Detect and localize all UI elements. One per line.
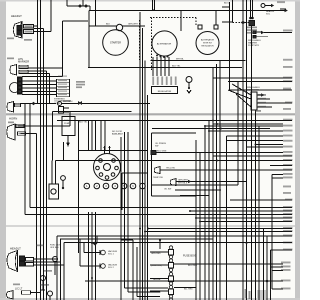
svg-text:HEADLT: HEADLT xyxy=(10,247,21,251)
svg-text:LIC LT: LIC LT xyxy=(15,288,23,291)
svg-text:WIPER MTR: WIPER MTR xyxy=(247,90,259,92)
svg-text:REGULATOR: REGULATOR xyxy=(158,90,172,93)
svg-text:PUMP MTR: PUMP MTR xyxy=(248,45,260,47)
svg-text:CONN: CONN xyxy=(54,103,61,105)
svg-text:ALTERNATOR: ALTERNATOR xyxy=(157,43,172,46)
svg-text:ALTERNATOR: ALTERNATOR xyxy=(201,39,215,42)
svg-text:GRN RED: GRN RED xyxy=(151,253,161,255)
svg-text:LPS: LPS xyxy=(18,57,23,61)
svg-text:(IGNITION): (IGNITION) xyxy=(151,265,162,267)
svg-text:BLK YEL: BLK YEL xyxy=(79,122,88,124)
svg-text:WITH INT: WITH INT xyxy=(203,43,213,45)
svg-text:SOL 2: SOL 2 xyxy=(108,267,115,269)
svg-text:VACUUM: VACUUM xyxy=(108,264,117,267)
svg-text:VACUUM: VACUUM xyxy=(108,250,117,253)
svg-text:HORN: HORN xyxy=(9,117,17,121)
svg-text:BLU RED: BLU RED xyxy=(152,292,162,294)
svg-text:GRN WHT: GRN WHT xyxy=(178,179,189,181)
svg-text:YELLOW: YELLOW xyxy=(166,168,175,170)
svg-text:BLK YEL: BLK YEL xyxy=(172,65,181,67)
svg-text:PUMP: PUMP xyxy=(64,123,71,125)
svg-text:FUSE BOX: FUSE BOX xyxy=(183,255,196,258)
svg-text:WASHER: WASHER xyxy=(248,42,258,45)
svg-text:AVAILABLE: AVAILABLE xyxy=(112,133,124,136)
svg-text:HEATER: HEATER xyxy=(266,10,275,13)
svg-text:BLU GRN: BLU GRN xyxy=(157,151,167,153)
svg-text:STARTER: STARTER xyxy=(110,42,121,45)
svg-text:SW: SW xyxy=(155,146,158,148)
svg-text:GRN WHT: GRN WHT xyxy=(128,24,139,26)
svg-text:BLL RED: BLL RED xyxy=(184,289,193,291)
svg-text:OIL SW: OIL SW xyxy=(164,189,171,191)
svg-text:BLU RED: BLU RED xyxy=(188,265,198,267)
svg-text:OFF SOL: OFF SOL xyxy=(50,247,60,249)
svg-text:REGULATOR: REGULATOR xyxy=(201,45,214,48)
svg-text:BLK A: BLK A xyxy=(224,2,230,5)
svg-text:GRN BL: GRN BL xyxy=(153,279,162,281)
svg-text:TEMP SW: TEMP SW xyxy=(153,177,163,179)
svg-text:BLK: BLK xyxy=(106,24,111,26)
svg-text:HEADLT: HEADLT xyxy=(11,14,22,18)
svg-text:WHT BLK: WHT BLK xyxy=(178,183,188,185)
svg-text:FUEL: FUEL xyxy=(64,120,70,122)
svg-text:WHT BL: WHT BL xyxy=(176,58,185,60)
svg-text:SOL 1: SOL 1 xyxy=(108,254,115,256)
